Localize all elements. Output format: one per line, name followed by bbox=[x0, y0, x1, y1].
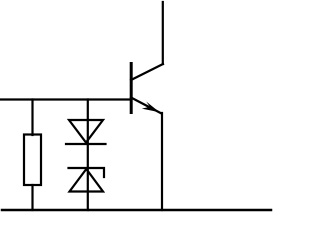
transistor Q1 emitter stroke bbox=[131, 98, 162, 114]
diode D2 (zener) cathode bar bbox=[69, 168, 105, 177]
wire resistor top lead bbox=[31, 100, 33, 136]
wire emitter lead bbox=[161, 113, 163, 210]
wire resistor bottom lead bbox=[31, 185, 33, 210]
transistor Q1 collector stroke bbox=[131, 64, 163, 80]
diode D1 bbox=[69, 120, 103, 143]
wire base rail bbox=[1, 98, 132, 100]
diode D2 (zener) bbox=[70, 169, 104, 192]
wire collector lead bbox=[162, 2, 164, 64]
wire diode branch bbox=[87, 100, 89, 211]
node D1 cathode bar bbox=[66, 143, 106, 145]
transistor Q1 emitter arrowhead bbox=[142, 102, 160, 113]
transistor Q1 base bar bbox=[130, 64, 133, 113]
resistor R1 bbox=[24, 135, 41, 186]
wire bottom rail bbox=[2, 209, 271, 212]
